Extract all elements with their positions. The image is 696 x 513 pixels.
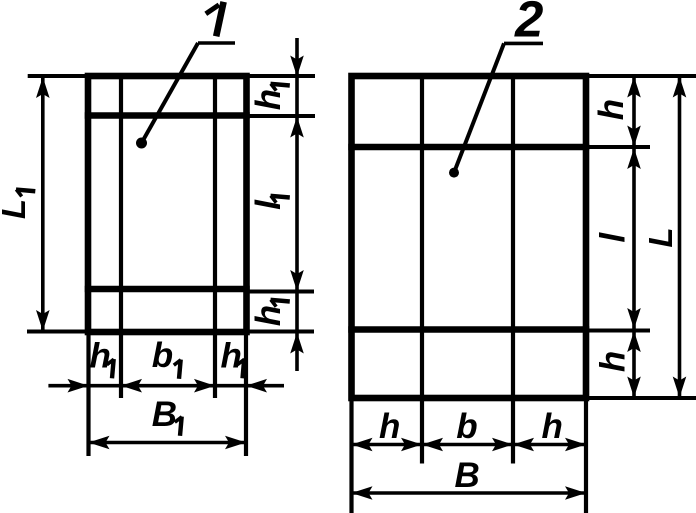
label h1 bottom right bbox=[221, 337, 245, 379]
label l1 bbox=[249, 196, 290, 210]
svg-text:b: b bbox=[456, 407, 477, 446]
figure 1 inner top rail bbox=[85, 112, 250, 119]
label B1 bbox=[152, 395, 182, 436]
dimension B1 bbox=[89, 436, 247, 450]
dimension L1 line with arrows bbox=[36, 77, 50, 331]
svg-text:h: h bbox=[90, 337, 111, 376]
figure 2 left border bottom extension bbox=[349, 401, 353, 513]
callout 2 dot bbox=[449, 168, 459, 178]
label L bbox=[642, 227, 679, 247]
dimension h1 lower right: outside arrow below bbox=[290, 333, 304, 354]
figure 1 right border bottom extension bbox=[244, 335, 248, 456]
figure 1 inner bottom rail bbox=[85, 286, 250, 293]
svg-text:h: h bbox=[379, 407, 400, 446]
callout digit 1 bbox=[206, 2, 224, 37]
label h1 lower right bbox=[249, 300, 290, 327]
svg-text:b: b bbox=[152, 336, 173, 375]
label L1 bbox=[0, 189, 35, 219]
label h top right bbox=[592, 99, 631, 120]
figure 2 bottom extension line bbox=[586, 396, 696, 400]
figure 2 top extension line bbox=[586, 74, 696, 78]
callout 2 shelf bbox=[504, 42, 543, 46]
callout 1 dot bbox=[136, 138, 147, 149]
figure 1 inner-bottom rail extension line bbox=[246, 290, 314, 294]
svg-text:L: L bbox=[642, 227, 679, 247]
figure 1 top extension line bbox=[28, 74, 315, 78]
svg-text:l: l bbox=[249, 199, 288, 210]
svg-text:h: h bbox=[592, 99, 631, 120]
figure 2 right inner stile bbox=[511, 74, 515, 464]
svg-text:h: h bbox=[221, 337, 242, 376]
figure 2 inner-top rail extension line bbox=[586, 145, 650, 149]
svg-text:h: h bbox=[542, 407, 563, 446]
svg-text:2: 2 bbox=[514, 0, 543, 48]
figure 2 right border bottom extension bbox=[584, 401, 588, 513]
figure 1 right inner stile bbox=[213, 74, 217, 398]
dimension row h b h bbox=[352, 438, 587, 452]
dimension l1 double arrow bbox=[290, 117, 304, 292]
dimension row h1 b1 h1 bbox=[48, 379, 284, 393]
svg-text:l: l bbox=[593, 232, 632, 243]
figure 2 inner top rail bbox=[348, 144, 589, 151]
svg-text:B: B bbox=[455, 456, 480, 495]
figure 1 outer frame border bbox=[88, 76, 247, 332]
label h bottom right bbox=[593, 351, 632, 372]
callout 1 shelf bbox=[198, 41, 235, 45]
dimension l: double arrow bbox=[627, 148, 641, 330]
callout 1 leader line bbox=[142, 43, 199, 143]
label l bbox=[593, 232, 632, 243]
svg-text:h: h bbox=[249, 305, 288, 326]
figure 2 inner bottom rail bbox=[348, 326, 589, 333]
figure 1 left inner stile bbox=[119, 74, 123, 398]
label h1 upper right bbox=[249, 84, 290, 111]
dimension L: double arrow bbox=[673, 77, 687, 398]
figure 2 inner-bottom rail extension line bbox=[586, 329, 650, 333]
dimension h1 upper right: outside arrow above bbox=[290, 38, 304, 371]
svg-text:h: h bbox=[249, 89, 288, 110]
dimension h bottom right: double arrow bbox=[627, 331, 641, 398]
dimension h top right: double arrow bbox=[627, 77, 641, 147]
figure 2 left inner stile bbox=[420, 74, 424, 464]
label b1 bbox=[152, 336, 181, 379]
svg-text:h: h bbox=[593, 351, 632, 372]
figure 1 left border bottom extension bbox=[86, 335, 90, 456]
svg-text:L: L bbox=[0, 199, 32, 219]
dimension B bbox=[352, 486, 587, 500]
svg-text:B: B bbox=[152, 395, 177, 434]
figure 1 bottom extension line bbox=[27, 330, 314, 334]
label h1 bottom left bbox=[90, 337, 114, 379]
figure 1 inner-top rail extension line bbox=[246, 114, 315, 118]
callout 2 leader line bbox=[454, 43, 504, 172]
figure 2 outer frame border bbox=[352, 76, 587, 398]
